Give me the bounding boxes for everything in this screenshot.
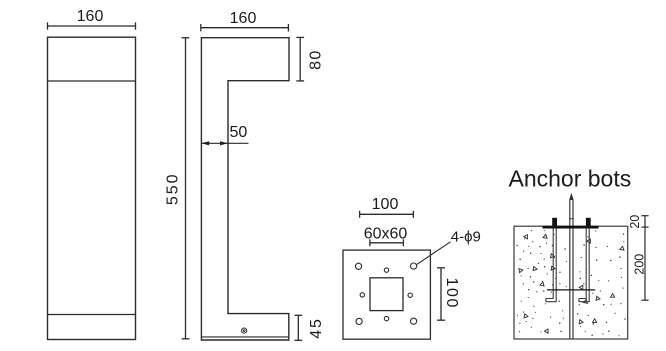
mounting plate outline: [343, 250, 430, 339]
dimension 160 (side view top): [201, 24, 289, 31]
corner bolt hole top-right: [411, 263, 417, 269]
anchor tie line: [547, 289, 595, 291]
pole centerline double line: [569, 200, 571, 339]
side view base plate line: [201, 336, 288, 338]
plate inner square 60x60: [370, 278, 403, 311]
svg-text:160: 160: [230, 10, 257, 27]
concrete texture dots: [517, 230, 626, 336]
svg-text:550: 550: [164, 172, 181, 205]
svg-text:100: 100: [372, 196, 399, 213]
corner bolt hole bottom-right: [411, 318, 417, 324]
dimension 80 (side view upper right): [296, 37, 304, 81]
svg-text:60x60: 60x60: [364, 226, 408, 243]
dimension 50 (side view wall thickness, arrows): [201, 142, 248, 144]
corner bolt hole top-left: [355, 263, 361, 269]
small hole top-middle: [384, 268, 388, 272]
small hole right-middle: [408, 293, 412, 297]
dimension 45 (side view bottom right): [294, 315, 302, 340]
right anchor bolt (J-bolt): [579, 229, 589, 302]
dimension 100 (plate right): [437, 268, 445, 320]
dimension 160 (front view top): [48, 22, 136, 29]
corner bolt hole bottom-left: [356, 318, 362, 324]
svg-text:50: 50: [230, 124, 248, 141]
front view outline: [48, 37, 136, 339]
small hole bottom-middle: [384, 316, 388, 320]
left anchor nut: [552, 218, 557, 229]
side view outline: [201, 38, 289, 340]
svg-text:45: 45: [308, 317, 325, 338]
svg-text:160: 160: [77, 8, 104, 25]
left anchor bolt (J-bolt): [546, 229, 556, 302]
dimension 100 (plate top): [360, 211, 414, 218]
small hole left-middle: [360, 293, 364, 297]
pole tip arrow: [569, 193, 573, 200]
leader line 4-phi9: [417, 242, 451, 265]
screw circle: [242, 328, 247, 333]
dimension 550 (front view right): [182, 38, 190, 339]
right anchor nut: [586, 218, 591, 229]
foundation block outline: [514, 226, 628, 339]
front view top seam line: [48, 80, 136, 82]
dimension 20 (foundation right top): [641, 216, 648, 301]
svg-text:20: 20: [628, 215, 642, 229]
svg-text:4-ϕ9: 4-ϕ9: [451, 229, 481, 246]
pole joint tick: [569, 218, 574, 220]
dimension 60x60 (plate): [370, 239, 404, 246]
svg-text:200: 200: [633, 254, 647, 275]
anchor base plate (black bar): [543, 226, 599, 229]
svg-text:Anchor bots: Anchor bots: [509, 166, 632, 192]
front view bottom seam line: [48, 314, 136, 316]
svg-text:100: 100: [443, 278, 460, 310]
svg-text:80: 80: [307, 49, 324, 70]
